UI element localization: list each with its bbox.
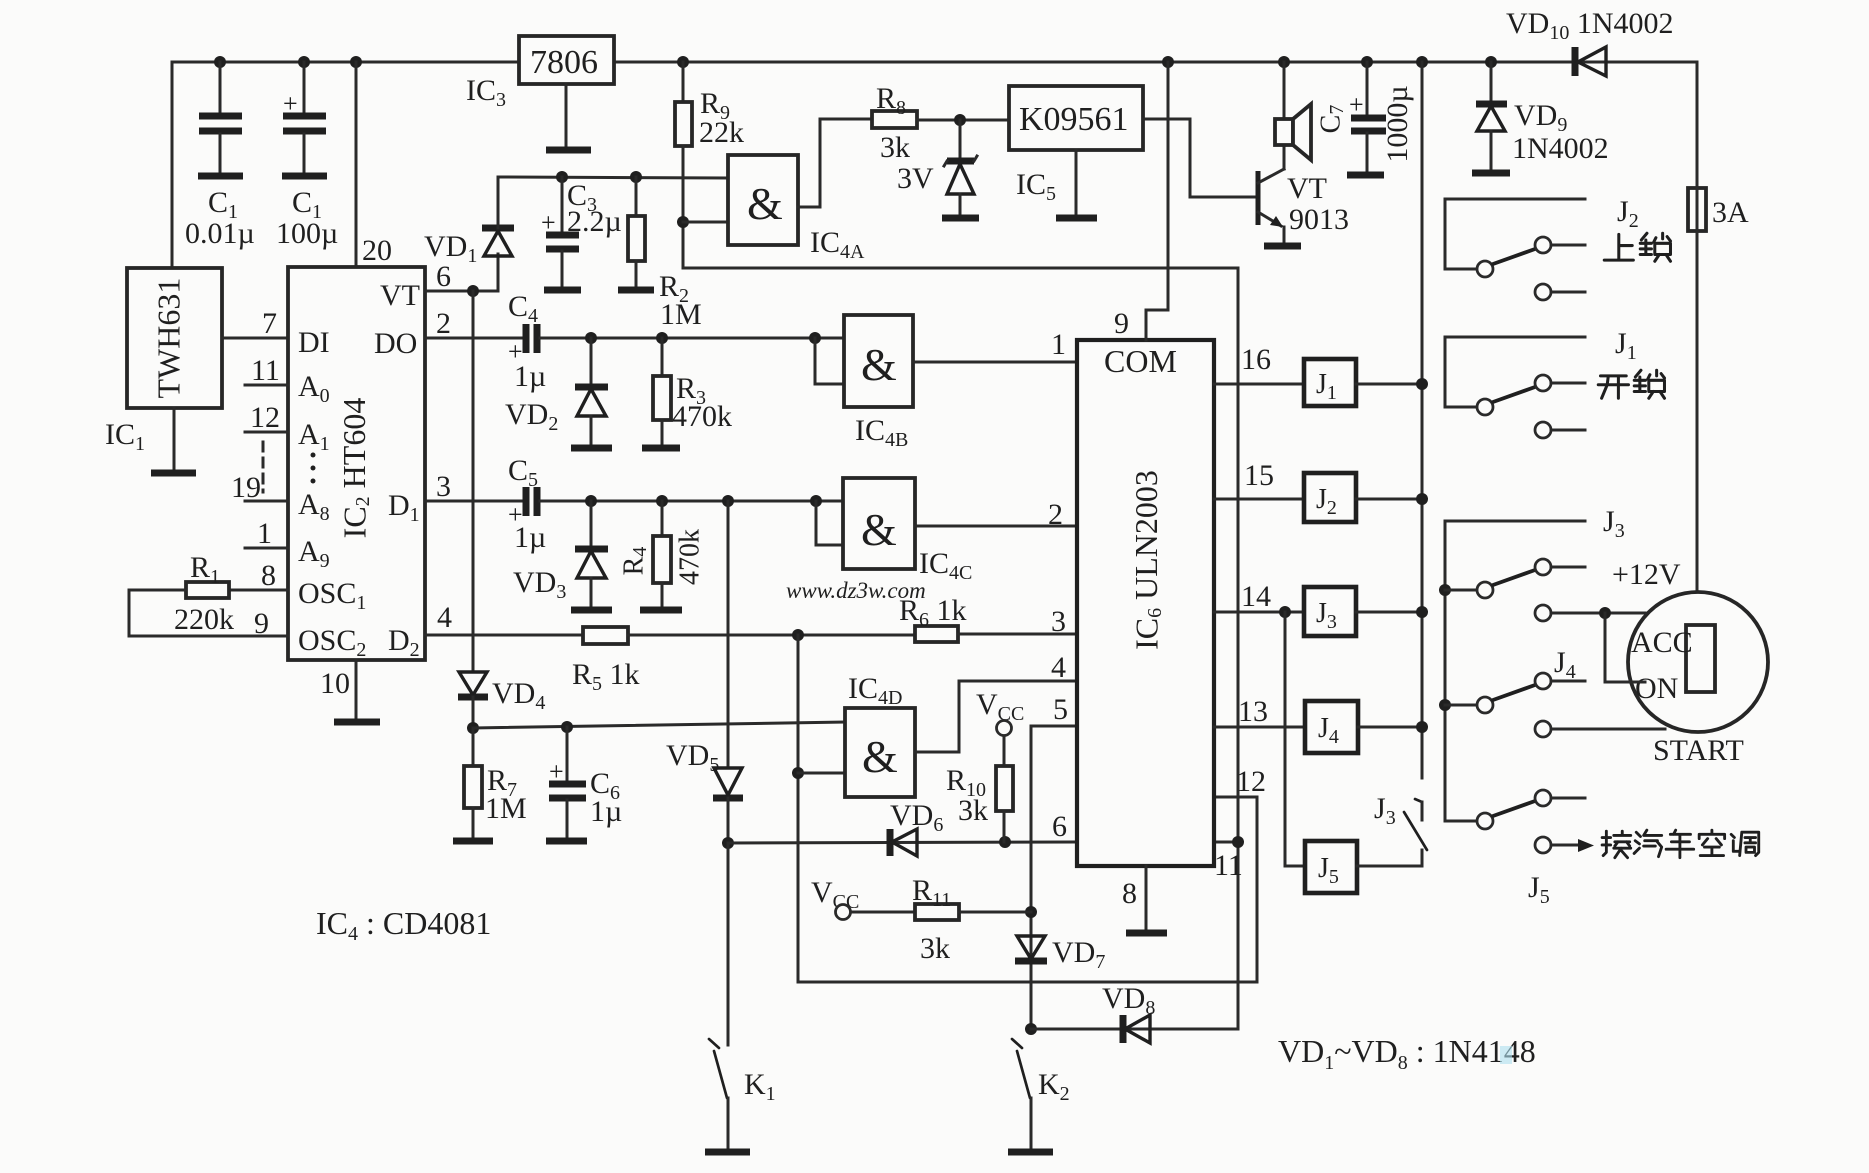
svg-text:www.dz3w.com: www.dz3w.com [786, 578, 926, 603]
relay coil J1 [1304, 359, 1356, 406]
svg-text:3A: 3A [1712, 196, 1749, 229]
svg-text:VT: VT [380, 279, 420, 312]
relay coil J2 [1304, 473, 1356, 522]
svg-text:4: 4 [1051, 651, 1066, 684]
resistor R11 3k [851, 874, 1031, 965]
wire pin14 [1214, 580, 1304, 618]
wire VD4 node to IC4D input1 [473, 721, 845, 733]
svg-text:14: 14 [1241, 580, 1271, 613]
text unlock (kai suo) [1598, 370, 1664, 398]
svg-text:1M: 1M [660, 298, 702, 331]
svg-text:R4: R4 [618, 547, 650, 576]
svg-text:4: 4 [437, 601, 452, 634]
svg-text:VCC: VCC [976, 688, 1024, 725]
svg-text:IC5: IC5 [1016, 168, 1056, 205]
wire A1 stub pin 12 [245, 401, 288, 434]
svg-text:R1: R1 [190, 551, 220, 588]
svg-text:VD4: VD4 [492, 677, 545, 714]
switch contacts J2 group [1445, 195, 1639, 300]
wire J4 out [1358, 726, 1422, 729]
scan artifact blue mark [1500, 1046, 1512, 1064]
svg-text:+12V: +12V [1612, 558, 1681, 591]
svg-text:START: START [1653, 734, 1744, 767]
svg-text:7: 7 [262, 307, 277, 340]
svg-text:13: 13 [1238, 695, 1268, 728]
wire pin9 from rail [1114, 62, 1168, 340]
switch K2 [1008, 1039, 1070, 1152]
svg-text:VD8: VD8 [1102, 982, 1155, 1019]
svg-text:10: 10 [320, 667, 350, 700]
AND gate IC4C [843, 478, 972, 584]
svg-text:VD6: VD6 [890, 799, 943, 836]
diode VD7 [1015, 936, 1105, 973]
resistor R7 1M [453, 728, 527, 841]
wire +12V top rail [172, 61, 1697, 64]
svg-text:J5: J5 [1528, 871, 1550, 908]
svg-text:8: 8 [1122, 877, 1137, 910]
svg-text:7806: 7806 [530, 44, 598, 81]
resistor R5 1k [572, 627, 640, 695]
diode VD6 [890, 799, 943, 856]
svg-text:8: 8 [261, 559, 276, 592]
relay coil J4 [1305, 701, 1358, 753]
svg-text:K1: K1 [744, 1068, 776, 1105]
wire right edge down [1696, 62, 1699, 188]
svg-text:100µ: 100µ [276, 217, 338, 250]
diode VD10 1N4002 on rail [1506, 7, 1674, 76]
svg-text:1: 1 [257, 517, 272, 550]
svg-text:22k: 22k [699, 116, 744, 149]
capacitor C7 1000u [1315, 62, 1413, 175]
svg-text:J1: J1 [1615, 327, 1637, 364]
terminal VCC upper [976, 688, 1024, 736]
wire pin5 vertical [1025, 693, 1077, 1035]
wire J1 out [1356, 383, 1422, 386]
capacitor C3 2.2u [541, 177, 622, 290]
diode VD4 [458, 291, 545, 734]
AND gate IC4A [683, 155, 865, 263]
wire pin16 [1214, 343, 1304, 384]
svg-text:5: 5 [1053, 693, 1068, 726]
svg-text:1N4002: 1N4002 [1512, 132, 1609, 165]
svg-text:220k: 220k [174, 603, 234, 636]
svg-text:470k: 470k [674, 529, 705, 585]
svg-text:R11: R11 [912, 874, 951, 911]
wire left drop to IC1 [171, 62, 174, 268]
svg-text:6: 6 [436, 260, 451, 293]
svg-text:VT: VT [1287, 172, 1327, 205]
resistor R8 3k [872, 82, 1009, 164]
svg-text:VD1: VD1 [424, 230, 477, 267]
wire pin6 line with VD6 [728, 810, 1077, 848]
wire IC4D out to pin4 [915, 651, 1077, 752]
wire DO to IC4B [540, 332, 844, 384]
wire IC4C out to pin2 [915, 498, 1077, 531]
capacitor C6 1u [546, 727, 622, 841]
svg-text:R8: R8 [876, 82, 906, 119]
diode VD2 [505, 338, 612, 448]
svg-text:&: & [861, 339, 897, 390]
svg-text:IC4B: IC4B [855, 414, 908, 451]
svg-text:3V: 3V [897, 162, 934, 195]
svg-text:19: 19 [231, 471, 261, 504]
svg-text:IC6 ULN2003: IC6 ULN2003 [1128, 470, 1165, 650]
capacitor C1 0.01u [185, 62, 255, 250]
receiver IC1 TWH631 [105, 268, 222, 455]
wire D1 pin3 [425, 470, 522, 503]
svg-text:VCC: VCC [811, 876, 859, 913]
relay coil J5 [1305, 841, 1357, 893]
resistor R9 22k [675, 62, 744, 268]
wire D2 branch down to pin12 loop [792, 635, 1266, 982]
speaker [1275, 62, 1311, 160]
text lock (shang suo) [1604, 233, 1670, 261]
svg-text:DO: DO [374, 327, 417, 360]
wire D2 pin4 row [425, 601, 583, 635]
svg-text:1µ: 1µ [514, 521, 546, 554]
svg-text:K2: K2 [1038, 1068, 1070, 1105]
svg-text:20: 20 [362, 234, 392, 267]
svg-text:C5: C5 [508, 454, 538, 491]
terminal VCC lower [811, 876, 859, 920]
svg-text:11: 11 [251, 354, 280, 387]
svg-text:VD5: VD5 [666, 739, 719, 776]
svg-text:2.2µ: 2.2µ [567, 205, 622, 238]
svg-text:15: 15 [1244, 459, 1274, 492]
svg-text:VD1~VD8 : 1N4148: VD1~VD8 : 1N4148 [1278, 1033, 1536, 1074]
wire DO pin2 [425, 307, 522, 340]
svg-text:16: 16 [1241, 343, 1271, 376]
terminal J5 to car air conditioner [1528, 837, 1594, 908]
svg-text:12: 12 [250, 401, 280, 434]
switch contacts J3 group [1439, 505, 1681, 821]
svg-text:12: 12 [1236, 765, 1266, 798]
resistor R2 1M [618, 177, 702, 331]
svg-text:IC4C: IC4C [919, 547, 972, 584]
svg-text:2: 2 [436, 307, 451, 340]
wire R6 to pin3 of IC6 [958, 605, 1077, 638]
svg-text:&: & [747, 178, 783, 229]
svg-text:TWH631: TWH631 [150, 278, 186, 399]
resistor R4 470k [618, 501, 705, 610]
switch contacts J5 group [1477, 790, 1585, 829]
wire A8 stub pin 19 [231, 471, 288, 504]
wire K09561 to VT base [1143, 119, 1254, 197]
switch J3 contact in bus [1374, 792, 1427, 866]
wire A0 stub pin 11 [245, 354, 288, 387]
decoder IC2 HT604 [288, 267, 425, 660]
wire R9 node to pin11 long line [683, 268, 1238, 1029]
svg-text:COM: COM [1104, 343, 1177, 379]
svg-text:OSC1: OSC1 [298, 577, 366, 614]
svg-text:K09561: K09561 [1019, 101, 1129, 138]
switch contacts J4 group [1445, 646, 1665, 737]
svg-text:2: 2 [1048, 498, 1063, 531]
diode VD3 [513, 501, 612, 610]
svg-text:IC2 HT604: IC2 HT604 [336, 398, 373, 539]
diode VD1 [424, 177, 514, 291]
svg-text:470k: 470k [672, 400, 732, 433]
svg-text:ON: ON [1635, 672, 1678, 705]
wire relay output bus from rail [1416, 62, 1428, 778]
svg-text:ACC: ACC [1631, 626, 1693, 659]
wire J3 coil branch to J5 [1285, 612, 1305, 866]
ground pin8 [1122, 866, 1167, 933]
svg-text:1000µ: 1000µ [1381, 85, 1414, 162]
svg-text:3: 3 [436, 470, 451, 503]
diode VD8 [1031, 982, 1238, 1043]
svg-text:11: 11 [1214, 849, 1243, 882]
AND gate IC4D [798, 672, 915, 797]
text jie qi che kong tiao [1602, 830, 1759, 858]
svg-text:J3: J3 [1374, 792, 1396, 829]
wire pin13 [1214, 695, 1305, 728]
diode VD9 1N4002 [1472, 62, 1609, 173]
svg-text:DI: DI [298, 326, 330, 359]
svg-text:VD10 1N4002: VD10 1N4002 [1506, 7, 1674, 44]
resistor R1 220k [129, 551, 288, 636]
relay coil J3 [1304, 587, 1356, 636]
svg-text:&: & [861, 504, 897, 555]
wire D2 mid [628, 629, 915, 641]
svg-text:9: 9 [1114, 307, 1129, 340]
svg-text:C7: C7 [1315, 105, 1347, 134]
wire IC4B out to pin1 [913, 328, 1077, 362]
node pin11 junction [1214, 836, 1244, 882]
svg-text:6: 6 [1052, 810, 1067, 843]
resistor R3 470k [642, 338, 732, 448]
wire VT pin6 [425, 260, 498, 297]
driver IC6 ULN2003 [1077, 340, 1214, 866]
wire fuse to ignition switch [1696, 231, 1699, 592]
svg-text:VD7: VD7 [1052, 936, 1105, 973]
resistor R10 3k [946, 736, 1013, 842]
pin 10 ground [320, 660, 380, 722]
wire J2 out [1356, 498, 1422, 501]
dashed ellipsis between A1 and A8 [263, 442, 316, 492]
wire DI pin7 [222, 337, 288, 340]
switch contacts J1 group [1445, 327, 1637, 438]
wire D1 to IC4C [540, 495, 843, 545]
svg-text:IC3: IC3 [466, 74, 506, 111]
svg-text:9013: 9013 [1289, 203, 1349, 236]
wire IC4A output to R8 [798, 119, 872, 207]
svg-text:OSC2: OSC2 [298, 624, 366, 661]
svg-text:1µ: 1µ [590, 795, 622, 828]
svg-text:IC4D: IC4D [848, 672, 902, 709]
wire J5 out [1357, 865, 1422, 868]
ignition switch START circle [1628, 592, 1768, 767]
svg-text:J2: J2 [1617, 195, 1639, 232]
svg-text:0.01µ: 0.01µ [185, 217, 255, 250]
transistor VT 9013 [1258, 145, 1349, 246]
svg-text:IC4A: IC4A [810, 226, 865, 263]
svg-text:J4: J4 [1554, 646, 1576, 683]
zener diode 3V [897, 120, 979, 218]
svg-text:VD9: VD9 [1514, 99, 1567, 136]
diode VD5 [666, 501, 743, 849]
node rail junctions [214, 56, 1497, 68]
ground IC1 [151, 408, 196, 473]
wire A9 stub pin 1 [245, 517, 288, 550]
svg-text:3k: 3k [880, 131, 910, 164]
svg-text:3: 3 [1051, 605, 1066, 638]
capacitor C4 1u [508, 290, 546, 393]
svg-text:1µ: 1µ [514, 360, 546, 393]
wire J3 out [1356, 611, 1422, 614]
AND gate IC4B [844, 315, 913, 451]
svg-text:IC1: IC1 [105, 418, 145, 455]
wire pin20 drop [355, 62, 358, 267]
switch K1 [705, 843, 776, 1152]
svg-text:C4: C4 [508, 290, 538, 327]
svg-text:&: & [862, 731, 898, 782]
svg-text:VD2: VD2 [505, 398, 558, 435]
wire pin15 [1214, 459, 1304, 499]
svg-text:IC4 : CD4081: IC4 : CD4081 [316, 905, 491, 945]
svg-text:R5 1k: R5 1k [572, 658, 640, 695]
wire C3 top line [498, 171, 728, 183]
svg-text:1: 1 [1051, 328, 1066, 361]
svg-text:3k: 3k [920, 932, 950, 965]
capacitor C5 1u [508, 454, 546, 554]
capacitor C1 100u [276, 62, 338, 250]
sound chip IC5 K09561 [1009, 86, 1143, 218]
svg-text:3k: 3k [958, 794, 988, 827]
svg-text:J3: J3 [1603, 505, 1625, 542]
resistor R6 1k [899, 594, 967, 642]
regulator IC3 7806 [466, 36, 614, 150]
svg-text:9: 9 [254, 607, 269, 640]
svg-text:1M: 1M [485, 792, 527, 825]
svg-text:VD3: VD3 [513, 566, 566, 603]
fuse 3A [1688, 188, 1749, 231]
